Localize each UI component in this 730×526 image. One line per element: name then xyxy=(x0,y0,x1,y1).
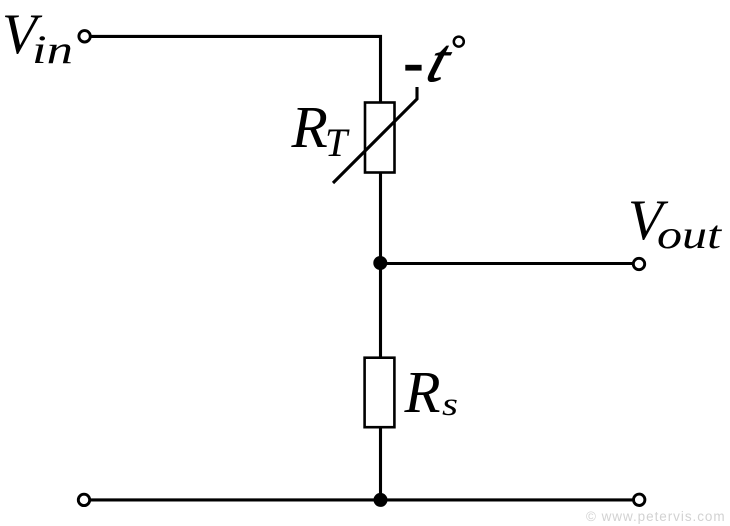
wire resistor Rs to node B xyxy=(379,427,382,500)
wire node A to Vout xyxy=(380,262,632,265)
svg-text:t: t xyxy=(420,25,461,94)
terminal Vout xyxy=(633,258,644,269)
resistor Rs body xyxy=(365,358,395,428)
wire bottom rail xyxy=(91,498,633,501)
label Vout xyxy=(628,189,722,257)
svg-text:R: R xyxy=(291,94,328,160)
node A junction dot xyxy=(373,256,387,270)
terminal bottom left xyxy=(78,494,89,505)
terminal bottom right xyxy=(634,494,645,505)
node B junction dot xyxy=(374,493,388,507)
label RT xyxy=(291,94,351,165)
svg-text:© www.petervis.com: © www.petervis.com xyxy=(586,509,726,524)
svg-text:R: R xyxy=(404,359,441,425)
degree symbol circle xyxy=(454,37,464,47)
label -t letter t xyxy=(420,25,461,94)
wire node A to resistor Rs xyxy=(379,263,382,358)
terminal Vin xyxy=(79,31,90,42)
wire Vin to thermistor xyxy=(92,36,381,102)
label -t minus sign xyxy=(405,65,421,71)
svg-text:out: out xyxy=(657,212,722,257)
svg-text:T: T xyxy=(325,120,350,165)
label Rs xyxy=(404,359,459,425)
thermistor RT body xyxy=(365,103,395,173)
label Vin xyxy=(2,3,73,72)
wire thermistor to node A xyxy=(379,173,382,264)
thermistor RT diagonal stroke xyxy=(333,87,417,183)
svg-text:in: in xyxy=(32,27,73,72)
svg-text:s: s xyxy=(442,387,458,423)
